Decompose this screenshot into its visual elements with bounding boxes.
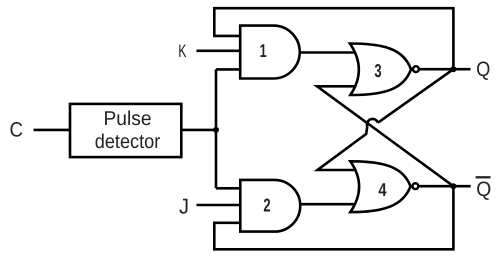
and-gate 1 <box>240 26 300 79</box>
wire AND2 output to NOR4 bottom input <box>299 203 357 206</box>
nor-gate 3 <box>350 44 419 96</box>
wire C input <box>34 129 71 132</box>
wire feedback top rail from Q to AND1 top input <box>214 8 453 69</box>
svg-text:K: K <box>178 41 186 61</box>
svg-text:Q: Q <box>476 58 490 81</box>
wire K input <box>197 49 242 52</box>
pulse detector block U1 <box>70 104 181 157</box>
node C label <box>10 118 24 141</box>
junction node at pulse detector output <box>213 127 219 133</box>
wire NOR3 lower input cross-coupled from Qbar node <box>317 86 453 186</box>
wire J input <box>197 204 242 207</box>
wire AND2 top input stub <box>216 187 241 190</box>
svg-text:Pulse: Pulse <box>104 108 152 130</box>
wire feedback bottom rail from Qbar to AND2 bottom input <box>214 186 453 249</box>
nor-gate 4 <box>350 161 418 212</box>
wire Q output <box>419 68 471 71</box>
wire pulse detector output <box>181 129 216 132</box>
node Qbar label with overbar <box>476 177 492 201</box>
svg-text:4: 4 <box>378 179 387 200</box>
wire signal bus vertical <box>215 69 218 188</box>
node Q label <box>476 58 490 81</box>
svg-text:J: J <box>179 195 189 219</box>
svg-text:2: 2 <box>263 195 270 216</box>
junction node Qbar <box>450 183 456 189</box>
node J label <box>179 195 189 219</box>
node K label <box>178 41 186 61</box>
wire Qbar output <box>418 185 470 188</box>
wire NOR4 upper input cross-coupled from Q node with hop over <box>318 69 454 170</box>
svg-text:1: 1 <box>260 40 267 61</box>
svg-text:detector: detector <box>95 131 161 153</box>
wire AND1 output to NOR3 top input <box>298 51 357 54</box>
junction node Q <box>450 66 456 72</box>
svg-text:Q: Q <box>476 178 491 201</box>
wire AND1 bottom input stub <box>216 68 241 71</box>
svg-text:3: 3 <box>374 60 381 81</box>
svg-text:C: C <box>10 118 24 141</box>
and-gate 2 <box>240 180 300 232</box>
